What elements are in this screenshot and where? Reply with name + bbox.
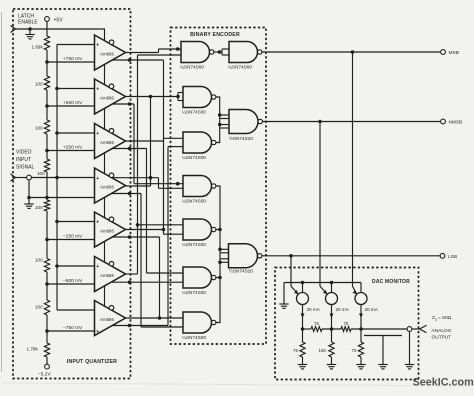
wire signal bus to comparator U6 non-inverting input	[55, 264, 94, 268]
svg-text:+750 mV: +750 mV	[63, 56, 83, 62]
wire track T3	[140, 194, 142, 328]
wire summing rail segment 2	[322, 328, 341, 330]
svg-text:¼SN74S00: ¼SN74S00	[182, 335, 206, 340]
svg-text:MSB: MSB	[449, 50, 459, 56]
ground under R4	[327, 357, 336, 369]
svg-text:75: 75	[344, 321, 349, 326]
wire track T7	[158, 178, 160, 189]
wire summing rail segment 3	[351, 328, 407, 330]
wire signal bus to comparator U5 non-inverting input	[55, 220, 94, 224]
svg-text:75: 75	[314, 321, 319, 326]
svg-text:NMSB: NMSB	[449, 120, 463, 126]
NAND gate G1 (1/4 SN74S00)	[180, 42, 214, 70]
svg-text:Am686: Am686	[100, 273, 114, 278]
op-amp comparator U6 Am686	[95, 257, 126, 292]
resistor 100 (R2)	[35, 76, 50, 90]
svg-text:¼SN74S00: ¼SN74S00	[182, 242, 206, 247]
svg-text:75: 75	[293, 348, 298, 353]
svg-text:1.69k: 1.69k	[32, 45, 44, 50]
op-amp comparator U7 Am686	[95, 301, 126, 336]
wire G7 output	[216, 229, 220, 231]
label ANALOG OUTPUT	[432, 328, 452, 341]
NAND gate G8 (1/2 SN74S20)	[229, 244, 262, 273]
svg-text:100: 100	[35, 126, 43, 131]
wire ladder rail segment 5	[46, 211, 48, 259]
label INPUT QUANTIZER	[67, 359, 117, 365]
wire signal bus to comparator U1 non-inverting input	[57, 44, 95, 46]
current source I1 20 mA	[291, 256, 321, 312]
svg-text:100: 100	[37, 171, 45, 176]
wire video terminal down to ground tap	[28, 180, 30, 198]
wire ladder rail segment 4	[46, 172, 48, 200]
analog output arrow	[412, 325, 427, 333]
svg-text:+500 mV: +500 mV	[63, 100, 83, 106]
binary encoder dashed enclosure box	[171, 28, 267, 345]
svg-text:−750 mV: −750 mV	[63, 325, 83, 331]
wire to gate G1 input B	[138, 47, 182, 55]
wire ladder rail segment 2	[46, 90, 48, 120]
ground under R5	[356, 357, 365, 369]
svg-text:¼SN74S00: ¼SN74S00	[182, 110, 206, 115]
NAND gate G5 (1/4 SN74S00)	[182, 132, 216, 160]
svg-text:100: 100	[35, 205, 43, 210]
wire tap +500 mV to comparator U2 inverting input	[47, 100, 95, 106]
wire track T1	[133, 104, 135, 184]
wire U1 Q output	[126, 49, 159, 53]
wire U3 Q output	[126, 138, 164, 141]
svg-text:Am686: Am686	[100, 52, 114, 57]
ground at latch enable	[25, 29, 34, 39]
node junction on latch enable line	[28, 27, 32, 31]
LSB output terminal	[440, 253, 457, 259]
svg-text:150: 150	[319, 348, 327, 353]
svg-text:+5V: +5V	[54, 18, 64, 24]
wire U1 Qbar output	[112, 58, 164, 62]
svg-text:+: +	[96, 131, 99, 137]
SeekIC.com watermark	[413, 377, 474, 389]
wire U7 Q output to gate G10 input A	[126, 316, 184, 320]
wire video input to signal bus	[31, 177, 94, 179]
op-amp comparator U2 Am686	[95, 79, 126, 114]
wire U3 Qbar output	[112, 147, 147, 151]
resistor 75 (shunt R3)	[293, 329, 305, 357]
svg-text:Am686: Am686	[100, 140, 114, 145]
wire to gate G5 input B	[168, 146, 183, 148]
wire U2 Q output to gate G3	[126, 93, 184, 101]
svg-text:ANALOG: ANALOG	[432, 328, 452, 334]
wire tap +250 mV to comparator U3 inverting input	[47, 144, 95, 150]
svg-text:+: +	[96, 43, 99, 49]
svg-text:INPUT: INPUT	[16, 157, 31, 163]
wire I2 to summing node	[330, 305, 334, 330]
wire summing rail segment	[303, 328, 312, 330]
wire to gate G6 input A	[134, 182, 183, 186]
svg-text:100: 100	[35, 258, 43, 263]
ground at DAC rail	[279, 304, 288, 308]
wire U4 Qbar output	[112, 192, 141, 196]
wire capacitor to ground	[382, 336, 384, 365]
svg-text:Am686: Am686	[100, 317, 114, 322]
resistor 100 (R4)	[37, 159, 50, 176]
svg-text:20 mA: 20 mA	[365, 307, 379, 312]
node ladder tap +750 mV	[45, 60, 49, 64]
wire tap −250 mV to comparator U5 inverting input	[47, 233, 95, 239]
wire MSB output line	[262, 50, 441, 54]
wire U6 Q output	[126, 273, 138, 275]
op-amp comparator U5 Am686	[95, 212, 126, 247]
node ladder tap +500 mV	[45, 104, 49, 108]
capacitor C1 plate	[364, 335, 402, 337]
svg-text:+: +	[96, 264, 99, 270]
svg-text:¼SN74S00: ¼SN74S00	[182, 155, 206, 160]
NAND gate G6 (1/4 SN74S00)	[182, 176, 216, 204]
node ladder tap +250 mV	[45, 149, 49, 153]
MSB output terminal	[441, 50, 459, 56]
wire signal bus to comparator U7 non-inverting input	[57, 309, 95, 311]
ground under capacitor	[378, 365, 387, 369]
DAC monitor dashed enclosure box	[275, 268, 419, 380]
svg-text:Am686: Am686	[100, 229, 114, 234]
svg-text:+: +	[96, 329, 99, 335]
wire tap −750 mV to comparator U7 inverting input	[47, 325, 95, 331]
NAND gate G4 (1/2 SN74S20)	[229, 110, 262, 142]
svg-text:Am686: Am686	[100, 96, 114, 101]
svg-text:¼SN74S00: ¼SN74S00	[182, 199, 206, 204]
svg-text:−500 mV: −500 mV	[63, 278, 83, 284]
wire ladder to -5.2V	[46, 357, 48, 364]
wire LSB bus stubs to G8 inputs	[218, 248, 228, 265]
svg-text:−250 mV: −250 mV	[63, 233, 83, 239]
node video on signal bus	[55, 176, 59, 180]
wire track T6	[159, 237, 161, 318]
wire to gate G7 input B	[164, 233, 184, 235]
wire LSB output line	[262, 254, 440, 258]
wire track T9	[163, 60, 165, 234]
wire ladder rail segment 1	[46, 50, 48, 76]
video input terminal	[16, 175, 32, 180]
svg-text:+: +	[96, 176, 99, 182]
NAND gate G7 (1/4 SN74S00)	[182, 219, 216, 247]
op-amp comparator U3 Am686	[95, 124, 126, 159]
node ladder center tap	[45, 196, 49, 200]
wire LSB bit line down to DAC	[0, 0, 1, 1]
wire U4 latch line	[112, 176, 159, 180]
ground under R3	[298, 357, 307, 369]
wire tap −500 mV to comparator U6 inverting input	[47, 278, 95, 284]
resistor 1.69k	[32, 36, 50, 50]
NAND gate G10 (1/4 SN74S00)	[182, 312, 216, 340]
wire to gate G5 input A	[164, 137, 184, 139]
NMSB output terminal	[441, 119, 463, 125]
svg-text:LSB: LSB	[448, 254, 457, 260]
wire NMSB output line	[262, 120, 440, 124]
wire track T2	[136, 55, 140, 274]
current source I3 20 mA	[353, 52, 379, 312]
input quantizer dashed enclosure box	[13, 9, 131, 379]
wire U4 Q output	[126, 185, 151, 187]
latch enable input arrow and label	[11, 14, 39, 33]
wire to gate G9 input A	[147, 272, 184, 274]
wire U5 Q output	[126, 228, 166, 232]
wire G6 output to LSB bus	[216, 186, 222, 323]
resistor 100 (R3)	[35, 120, 50, 134]
+5V supply terminal	[45, 17, 64, 24]
svg-text:SeekIC.com: SeekIC.com	[413, 377, 474, 389]
wire to gate G1 input A	[159, 48, 182, 50]
node ladder tap −250 mV	[45, 238, 49, 242]
resistor 1.78k	[27, 343, 50, 357]
op-amp comparator U1 Am686	[95, 35, 126, 70]
svg-text:INPUT QUANTIZER: INPUT QUANTIZER	[67, 359, 117, 365]
wire U2 Qbar output	[112, 102, 134, 106]
resistor 75 (shunt R5)	[352, 329, 364, 357]
svg-text:SIGNAL: SIGNAL	[16, 165, 35, 171]
wire tap +750 mV to comparator U1 inverting input	[47, 56, 95, 62]
NAND gate G3 (1/4 SN74S00)	[182, 87, 216, 115]
node ladder tap −500 mV	[45, 282, 49, 286]
resistor 75 (series R2)	[341, 321, 351, 331]
wire signal bus to comparator U2 non-inverting input	[55, 87, 94, 91]
wire G1 output to G2 inputs	[214, 49, 229, 55]
resistor 150 (shunt R4)	[319, 329, 335, 357]
svg-text:½SN74S20: ½SN74S20	[229, 267, 253, 273]
wire DAC supply rail	[284, 281, 361, 304]
wire +5V to ladder	[46, 21, 48, 36]
wire U6 Qbar output to gate G9 input B	[112, 280, 183, 284]
ground under output terminal	[405, 365, 414, 369]
node summing 2	[330, 327, 334, 331]
svg-text:DAC MONITOR: DAC MONITOR	[372, 279, 410, 285]
svg-text:ENABLE: ENABLE	[18, 20, 38, 26]
svg-text:OUTPUT: OUTPUT	[432, 335, 452, 341]
label Z0 = 50 ohm	[432, 315, 452, 322]
wire U7 Qbar output	[112, 324, 168, 328]
svg-text:BINARY ENCODER: BINARY ENCODER	[190, 32, 240, 38]
wire signal bus to comparator U3 non-inverting input	[55, 131, 94, 135]
label BINARY ENCODER	[190, 32, 240, 38]
label DAC MONITOR	[372, 279, 410, 285]
resistor 100 (R7)	[35, 300, 50, 315]
ground at video input	[24, 198, 33, 209]
wire to gate G10 input B	[141, 326, 183, 328]
svg-text:VIDEO: VIDEO	[16, 150, 32, 156]
svg-text:100: 100	[35, 305, 43, 310]
current source I2 20 mA	[320, 122, 350, 313]
wire NMSB bus stubs to G4 inputs	[218, 113, 229, 128]
wire track T5	[150, 97, 152, 187]
svg-text:20 mA: 20 mA	[307, 307, 321, 312]
wire track T4	[146, 149, 148, 274]
svg-text:¼SN74S00: ¼SN74S00	[228, 65, 252, 70]
analog output terminal	[407, 327, 412, 332]
op-amp comparator U4 Am686	[95, 168, 126, 203]
wire to gate G7 input A	[138, 224, 184, 226]
svg-text:−5.2V: −5.2V	[38, 372, 51, 378]
wire I3 to summing node	[359, 305, 363, 330]
node summing 3	[359, 327, 363, 331]
wire I1 to summing node	[301, 305, 305, 330]
NAND gate G2 (1/4 SN74S00)	[228, 42, 262, 70]
NAND gate G9 (1/4 SN74S00)	[182, 267, 216, 295]
wire latch enable to latch bus elbow	[16, 29, 105, 307]
svg-text:+250 mV: +250 mV	[63, 144, 83, 150]
wire U5 Qbar output	[112, 235, 160, 239]
wire output terminal to ground	[409, 331, 411, 364]
svg-text:75: 75	[352, 348, 357, 353]
svg-text:Am686: Am686	[100, 185, 114, 190]
wire ladder rail segment 7	[46, 315, 48, 343]
svg-text:100: 100	[35, 82, 43, 87]
wire video signal bus vertical	[56, 45, 58, 311]
wire ladder rail segment 3	[46, 134, 48, 159]
svg-text:½SN74S20: ½SN74S20	[229, 135, 253, 141]
node ladder tap −750 mV	[45, 329, 49, 333]
svg-text:¼SN74S00: ¼SN74S00	[182, 290, 206, 295]
node ground tap junction	[27, 196, 31, 200]
wire ladder rail segment 6	[46, 272, 48, 300]
resistor 100 (R6)	[35, 258, 50, 273]
node summing 1	[301, 327, 305, 331]
svg-text:¼SN74S00: ¼SN74S00	[180, 65, 204, 70]
resistor 75 (series R1)	[311, 321, 322, 331]
resistor 100 (R5)	[35, 200, 50, 211]
wire G9 output	[216, 277, 220, 279]
-5.2V supply terminal	[38, 364, 51, 377]
video input arrow and label	[11, 150, 35, 182]
wire G3 output to NMSB bus	[216, 97, 220, 143]
svg-text:20 mA: 20 mA	[336, 307, 350, 312]
wire ground tap to ladder center and comparator U4	[29, 197, 95, 199]
wire to gate G6 input B	[159, 187, 184, 189]
svg-text:+: +	[96, 87, 99, 93]
svg-text:+: +	[96, 220, 99, 226]
svg-text:1.78k: 1.78k	[27, 347, 39, 352]
wire track T8	[167, 147, 169, 326]
